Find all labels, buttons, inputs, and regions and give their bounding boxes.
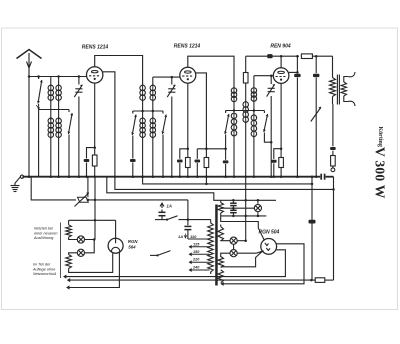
wire grid line tube3 <box>254 75 273 77</box>
resistor R8 <box>315 278 325 283</box>
switch S2 <box>68 110 70 113</box>
capacitor C5 <box>180 149 188 159</box>
svg-text:220: 220 <box>192 258 200 262</box>
wire aux heater return <box>69 252 119 287</box>
tube U5 RGN564 rectifier <box>108 238 123 253</box>
switch S3 <box>132 111 134 112</box>
wire grid line tube2 <box>153 76 180 78</box>
svg-text:V 300 W: V 300 W <box>373 147 388 199</box>
transformer T2 winding W4 <box>218 270 224 283</box>
wire tube3 cathode <box>280 83 282 157</box>
capacitor C12 <box>332 104 334 146</box>
coil L13 <box>253 114 255 139</box>
coil L8 <box>152 117 154 139</box>
coil L9 IF2 primary <box>233 87 235 103</box>
transformer T2 core <box>215 205 218 286</box>
node bus junctions <box>28 175 31 178</box>
capacitor C2 cathode bypass <box>87 148 95 159</box>
wire plate rail <box>246 55 268 57</box>
wire rectifier out loop2 <box>66 250 285 277</box>
switch S4 <box>162 111 164 114</box>
wire <box>221 253 230 257</box>
coil L10 <box>233 112 235 138</box>
svg-text:RGN 504: RGN 504 <box>259 230 280 236</box>
resistor R2 cathode <box>186 158 191 168</box>
potentiometer P2 volume <box>78 197 89 202</box>
switch S7 mains <box>155 219 167 221</box>
wire rectifier plate <box>221 216 265 240</box>
resistor R10 aux <box>69 253 78 255</box>
wire tube1 screen <box>103 72 334 190</box>
coil L2 antenna secondary <box>58 77 60 86</box>
transformer primary taps 110-240 <box>188 238 210 240</box>
wire tube1 cathode <box>94 83 96 155</box>
wire AVC rail <box>143 177 312 184</box>
node antenna/grid junctions <box>28 75 31 78</box>
resistor R7 <box>331 156 336 167</box>
resistor R1 cathode <box>92 155 97 166</box>
wire screen branch <box>197 148 225 150</box>
capacitor C16 <box>230 209 237 211</box>
wire tube2 screen <box>196 73 207 158</box>
wire <box>85 240 95 253</box>
svg-text:240: 240 <box>192 266 200 270</box>
transformer T2 primary <box>210 220 212 223</box>
lamp LP5 aux <box>77 249 84 256</box>
node <box>205 148 208 151</box>
antenna <box>17 50 42 59</box>
coil L3 <box>50 117 52 139</box>
svg-text:RENS 1214: RENS 1214 <box>174 44 201 50</box>
svg-text:einer neueren: einer neueren <box>34 231 57 235</box>
wire grid cap link <box>280 56 282 68</box>
wire tube2 cathode <box>187 83 189 157</box>
node tap mark <box>38 107 40 109</box>
wire <box>94 177 96 221</box>
lamp LP3 dial <box>230 250 237 257</box>
capacitor C7 <box>225 149 227 160</box>
svg-text:564: 564 <box>128 245 136 250</box>
wire <box>38 108 40 177</box>
wire tap line <box>39 109 69 111</box>
potentiometer P1 tone <box>315 56 317 73</box>
capacitor C9 grid <box>267 54 272 58</box>
svg-text:Auflage ohne: Auflage ohne <box>32 267 55 271</box>
variable capacitor C8 <box>270 76 272 84</box>
tube U4 RGN504 rectifier <box>261 239 277 255</box>
capacitor C17 <box>309 220 316 224</box>
svg-text:REN 904: REN 904 <box>270 44 291 50</box>
wire plate link tube2 <box>188 56 234 88</box>
capacitor C13 bus series <box>320 174 322 180</box>
wire grid line tube1 <box>29 76 87 78</box>
wire W3 link <box>221 252 262 267</box>
node <box>280 147 283 150</box>
svg-text:Netzteil bei: Netzteil bei <box>34 227 53 231</box>
ground <box>20 175 23 178</box>
brace annotation <box>60 223 62 279</box>
wire lamp line <box>221 240 230 242</box>
capacitor C15 <box>230 202 237 204</box>
fuse F1 1A <box>161 210 163 213</box>
switch S1 wave-band <box>38 77 40 80</box>
coil L5 IF1 primary <box>142 84 144 102</box>
resistor R4 decoupling <box>245 56 247 72</box>
svg-text:Ausführung: Ausführung <box>33 236 54 240</box>
transformer T1 core <box>336 75 338 105</box>
capacitor C3 <box>130 159 136 162</box>
svg-text:1A: 1A <box>167 204 172 209</box>
wire rectifier out loop1 <box>224 244 305 284</box>
coil L12 IF2 secondary <box>253 76 255 89</box>
wire HV bottom <box>221 215 267 217</box>
svg-text:im Teil der: im Teil der <box>33 263 51 267</box>
wire IF2 tap line <box>226 110 265 112</box>
node cathode branch <box>93 146 96 149</box>
svg-text:RGN: RGN <box>128 239 138 244</box>
wire rail3 <box>107 177 221 201</box>
wire HV top <box>221 199 276 201</box>
wire HV centre <box>221 207 255 209</box>
svg-text:1A: 1A <box>178 234 183 239</box>
coil L11 oscillator <box>245 101 247 124</box>
capacitor C10 <box>274 149 281 159</box>
transformer T2 winding W1 <box>218 203 224 214</box>
switch S6 <box>263 111 265 114</box>
ground bus <box>23 176 321 178</box>
variable capacitor C4 <box>171 77 173 84</box>
wire heater rail <box>70 279 315 281</box>
resistor R3 screen feed <box>204 158 209 168</box>
capacitor C6 <box>196 149 198 159</box>
transformer T2 winding W3 <box>218 257 224 268</box>
wire antenna down-lead <box>28 68 30 177</box>
coil L4 <box>58 117 60 139</box>
tube U1 RENS1214 <box>87 67 103 83</box>
wire HT rail <box>333 177 335 280</box>
wire B+ feed <box>245 177 247 241</box>
coil L1 antenna primary <box>50 77 52 86</box>
svg-text:Netzanschluß: Netzanschluß <box>33 272 57 276</box>
lamp LP2 dial <box>230 237 237 244</box>
lamp LP4 aux <box>69 237 78 239</box>
svg-text:150: 150 <box>193 250 200 254</box>
wire heater <box>237 252 256 254</box>
resistor R6 <box>279 158 284 168</box>
svg-text:125: 125 <box>193 242 200 246</box>
switch S5 <box>225 111 227 113</box>
speaker terminals <box>348 72 356 77</box>
transformer T1 primary <box>330 78 336 97</box>
wire plate link tube1 <box>95 56 143 86</box>
wire <box>87 177 89 198</box>
tube U2 RENS1214 <box>180 67 196 83</box>
coil L6 <box>142 117 144 139</box>
capacitor C14 mains <box>187 200 189 225</box>
tube U3 REN904 <box>273 68 289 84</box>
wire field coil feed <box>311 177 313 280</box>
svg-text:Körting: Körting <box>377 127 383 147</box>
variable resistor arrow <box>311 108 321 122</box>
resistor R5 grid leak <box>301 54 312 59</box>
transformer T1 secondary <box>341 82 346 96</box>
wire aux top <box>69 219 116 221</box>
wire aux loop <box>69 253 113 272</box>
capacitor C11 anode bypass <box>296 56 298 73</box>
node <box>87 199 90 202</box>
transformer T2 winding W2 <box>218 227 224 242</box>
resistor R9 aux <box>68 220 70 225</box>
wire volume line <box>31 177 76 200</box>
lamp LP1 <box>257 200 259 204</box>
svg-text:110: 110 <box>190 234 197 239</box>
wire tube3 anode side <box>289 71 298 73</box>
switch S8 voltage selector <box>150 254 158 256</box>
wire IF1 tap line <box>133 110 163 112</box>
coil L7 IF1 secondary <box>152 77 154 85</box>
terminal node <box>331 168 335 172</box>
svg-text:RENS 1214: RENS 1214 <box>82 45 109 51</box>
variable capacitor C1 tuning <box>78 77 80 85</box>
node <box>187 148 190 151</box>
wire to output transformer <box>332 56 334 77</box>
